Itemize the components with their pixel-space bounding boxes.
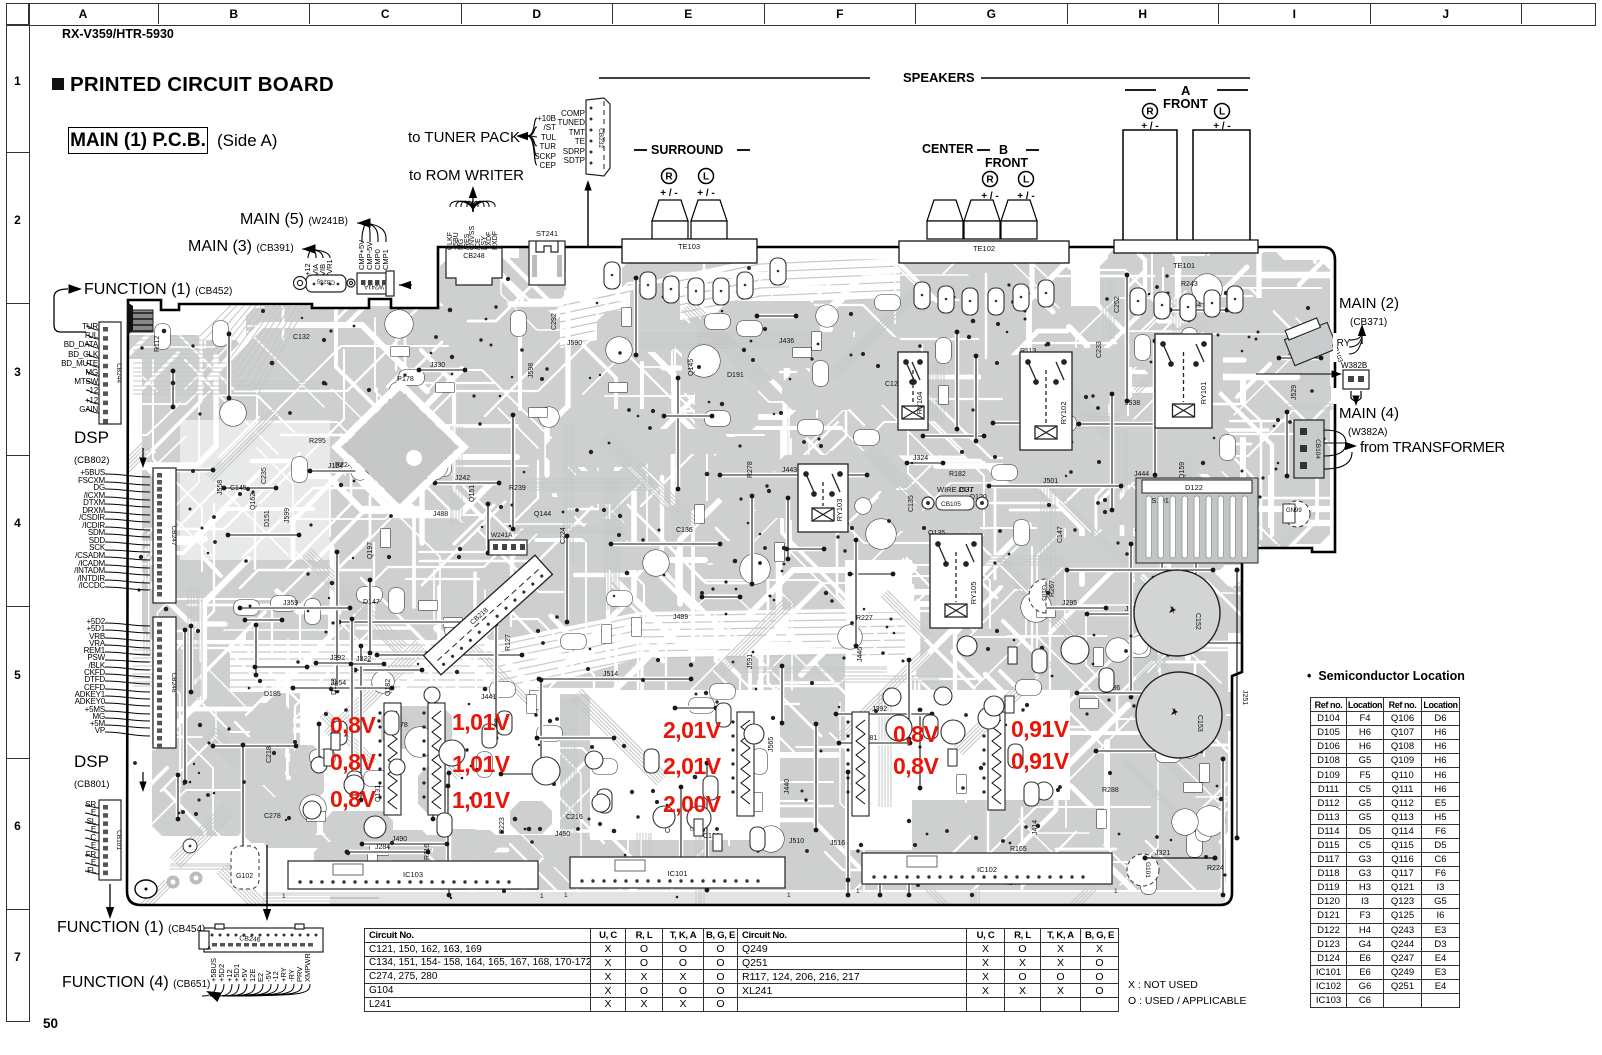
svg-text:G102: G102 [236,873,253,880]
svg-text:RY105: RY105 [969,582,978,605]
QFP IC (big diamond) [336,384,464,510]
svg-text:WIRE CUT: WIRE CUT [937,485,974,494]
dense pour overlay [771,305,820,342]
terraced white channel bands [180,252,1070,850]
svg-text:D191: D191 [727,372,744,379]
svg-text:J529: J529 [1291,385,1298,400]
connector CB246 [153,617,177,748]
svg-text:R223: R223 [499,817,506,834]
svg-text:R: R [986,174,994,185]
component clusters near measurement points [384,711,399,735]
connector CB247 [153,468,177,603]
wire J321 [1143,850,1218,861]
connector TE103 [622,239,757,263]
svg-text:J324: J324 [913,455,928,462]
svg-text:J443: J443 [782,467,797,474]
svg-text:R112: R112 [154,336,161,352]
connector W241A [357,271,394,296]
svg-text:TMT: TMT [569,128,586,137]
svg-text:J510: J510 [789,838,804,845]
relay RY103 [798,464,848,532]
W382B label [1341,361,1367,370]
connector CB104 [1294,420,1324,478]
A dashes [1125,89,1156,91]
svg-text:C278: C278 [264,813,281,820]
svg-text:C147: C147 [1057,526,1064,543]
MAIN (2) label [1339,295,1399,329]
svg-text:J501: J501 [1043,478,1058,485]
FUNCTION (1) CB452 arrow line [54,289,86,332]
connector CB244 [99,322,122,424]
svg-text:CMP1: CMP1 [381,249,390,270]
svg-text:L: L [703,171,709,182]
svg-text:W241A: W241A [491,532,513,539]
svg-text:D151: D151 [264,510,271,527]
connector W382B [1343,370,1369,389]
to TUNER PACK label [408,129,520,146]
svg-text:TE101: TE101 [1173,261,1195,270]
svg-text:J251: J251 [1241,690,1248,705]
capacitor C153 [1136,672,1222,758]
svg-text:TE102: TE102 [973,244,995,253]
svg-text:C132: C132 [293,334,310,341]
Semiconductor Location title [1307,669,1465,683]
svg-text:TE: TE [575,137,585,146]
svg-text:CB232: CB232 [597,128,604,148]
svg-text:J591: J591 [747,654,754,669]
from TRANSFORMER bracket [1324,430,1352,469]
svg-text:TUNED: TUNED [557,118,585,127]
svg-text:R: R [665,171,673,182]
relay RY101 [1155,334,1212,428]
MAIN (3) fan curves [302,244,316,253]
svg-text:J490: J490 [392,836,407,843]
svg-text:D122: D122 [1185,483,1203,492]
svg-text:RY104: RY104 [915,392,924,415]
svg-text:R267: R267 [1049,580,1056,597]
svg-text:CB105: CB105 [941,501,961,508]
left edge fan traces [133,268,326,686]
MAIN (1) P.C.B. box [68,127,208,154]
svg-text:RY101: RY101 [1199,382,1208,405]
svg-text:J321: J321 [1155,850,1170,857]
svg-text:R: R [1146,106,1154,117]
IC103 strip [282,861,544,900]
B label [999,143,1008,157]
svg-text:J295: J295 [1062,600,1077,607]
svg-text:XMPWR: XMPWR [303,953,312,982]
svg-text:J392: J392 [330,655,345,662]
svg-text:J538: J538 [1125,400,1140,407]
svg-text:C252: C252 [1114,296,1121,313]
connector CB101 [99,800,122,880]
svg-text:RY102: RY102 [1059,402,1068,425]
svg-text:J440: J440 [784,779,791,794]
svg-text:W241A: W241A [364,283,384,289]
IC102 strip [856,853,1118,895]
wire from CB232 to board [587,186,589,246]
svg-text:R288: R288 [1102,787,1119,794]
svg-text:J359: J359 [283,600,298,607]
FRONT label (B) [985,156,1028,170]
svg-text:L: L [1219,106,1225,117]
CB245/W241A pin labels [303,240,390,276]
legend [1128,979,1198,991]
svg-text:J590: J590 [567,340,582,347]
svg-text:J598: J598 [528,363,535,378]
connector TE101 base [1114,240,1258,253]
svg-text:GN99: GN99 [1286,508,1302,514]
FRONT label (A) [1163,96,1208,111]
FUNCTION (1) CB454 label [57,919,205,937]
Circuit No. table [364,928,1119,1012]
svg-text:R165: R165 [1010,846,1027,853]
svg-text:C224: C224 [560,527,567,544]
svg-text:J489: J489 [673,614,688,621]
connector ST241 [529,241,565,285]
svg-text:R116: R116 [424,844,431,860]
svg-text:J284: J284 [375,844,390,851]
svg-text:R127: R127 [505,634,512,651]
svg-text:D123: D123 [331,678,338,695]
svg-text:J330: J330 [430,362,445,369]
PRINTED CIRCUIT BOARD heading [52,78,64,90]
SURROUND terminals [652,200,688,239]
heatsink HS101 with D122 [1136,478,1258,563]
red voltage annotations [330,712,375,739]
FUNCTION (1) CB452 label [84,281,232,299]
svg-text:J436: J436 [779,338,794,345]
svg-text:R278: R278 [747,461,754,478]
connector CB232 to tuner pack [586,98,610,176]
svg-text:L: L [1023,174,1029,185]
MAIN (2) PRY curves [1361,328,1363,344]
diagonal connector CB218 [424,555,553,675]
svg-text:CB246: CB246 [239,935,261,943]
svg-text:IC101: IC101 [667,869,687,878]
from TRANSFORMER label [1360,439,1505,456]
row ruler [6,3,30,1022]
CENTER + B FRONT terminals [927,200,963,239]
svg-text:J414: J414 [1032,820,1039,835]
svg-text:CB104: CB104 [1314,439,1321,459]
svg-text:C218: C218 [266,746,273,763]
svg-text:ST241: ST241 [536,229,558,238]
svg-text:J444: J444 [1134,471,1149,478]
svg-text:C233: C233 [1096,341,1103,358]
svg-text:CB244: CB244 [115,363,122,383]
tiny reference labels [154,263,1298,887]
svg-text:+ / -: + / - [697,188,715,199]
FUNCTION (4) CB651 label [62,974,210,992]
svg-text:J599: J599 [284,508,291,523]
svg-text:TE103: TE103 [678,242,700,251]
small component outlines (capacitors / resistors) [155,274,1235,894]
svg-text:1: 1 [564,892,568,899]
connector CB103 (tilted) [1281,315,1343,379]
relay RY102 [1020,352,1072,450]
svg-text:Q182: Q182 [385,679,392,696]
svg-text:SDTP: SDTP [564,156,585,165]
bottom-left mount holes [135,880,157,898]
A FRONT terminal towers [1123,130,1250,241]
svg-text:C152: C152 [1194,613,1201,630]
svg-text:J450: J450 [555,831,570,838]
svg-text:SCKP: SCKP [534,152,556,161]
pin tick lines [85,326,150,874]
svg-text:J441: J441 [481,694,496,701]
ground pad G102 [231,846,259,889]
wire J251 near right edge [1235,568,1249,841]
connector CB245 [294,275,356,292]
CB246 pin labels [209,953,312,982]
svg-text:1: 1 [856,888,860,895]
relay RY105 [930,534,982,628]
svg-text:IC102: IC102 [977,865,997,874]
connector CB246 (FUNCTION) [199,924,323,952]
svg-text:J242: J242 [455,475,470,482]
svg-text:C135: C135 [908,495,915,512]
ground pad G103 [1029,579,1047,613]
svg-text:J488: J488 [433,511,448,518]
svg-text:RXDF: RXDF [492,231,499,250]
svg-text:TUR: TUR [540,142,557,151]
CENTER label [922,142,973,156]
svg-text:CB247: CB247 [170,526,177,546]
svg-text:1: 1 [540,893,544,900]
SURROUND label [651,143,723,157]
ground pad G104 [1283,501,1310,527]
svg-text:R243: R243 [1181,281,1198,288]
svg-text:CEP: CEP [540,161,556,170]
svg-text:G103: G103 [1040,585,1047,601]
svg-text:IC103: IC103 [403,870,423,879]
svg-text:J322: J322 [356,656,371,663]
IC101 strip [564,857,791,899]
resistor network arrays [378,703,401,815]
svg-text:Q162: Q162 [250,493,257,510]
DSP CB801 label [74,752,109,792]
svg-text:Q131: Q131 [375,785,382,802]
svg-text:C136: C136 [676,527,693,534]
svg-text:A: A [207,946,211,952]
svg-text:RY103: RY103 [835,499,844,522]
to ROM WRITER label [409,167,524,184]
svg-text:J558: J558 [217,480,224,495]
relay RY104 [898,352,928,430]
CENTER / B dashes [977,149,990,151]
svg-text:CB101: CB101 [115,830,122,850]
DSP CB802 label [74,428,109,468]
svg-text:C145: C145 [230,485,247,492]
svg-text:D147: D147 [363,599,380,606]
svg-text:J514: J514 [603,671,618,678]
svg-text:G101: G101 [1144,862,1151,878]
MAIN (4) label [1339,405,1399,439]
svg-text:D185: D185 [264,691,281,698]
column ruler [6,3,1596,26]
svg-text:C153: C153 [1196,715,1203,732]
MAIN (5) label [240,211,348,229]
connector W241A mid-board [489,532,527,555]
arrow from board to CB246 [266,845,268,916]
svg-text:R227: R227 [856,615,873,622]
MAIN (3) label [188,238,294,256]
svg-text:+ / -: + / - [660,188,678,199]
svg-text:Q151: Q151 [469,485,476,502]
Semiconductor Location table [1310,697,1460,1008]
svg-text:C216: C216 [566,814,583,821]
SPEAKERS header rule right [981,77,1250,79]
A label [1181,83,1190,98]
capacitor C152 [1134,570,1220,656]
connector TE102 [899,241,1069,263]
svg-text:CB246: CB246 [170,673,177,693]
svg-text:R239: R239 [509,485,526,492]
svg-text:/VR1: /VR1 [325,259,334,276]
svg-text:R295: R295 [309,438,326,445]
PRY label [1330,338,1350,349]
svg-text:Q144: Q144 [534,511,551,518]
svg-text:R224: R224 [1207,865,1224,872]
svg-text:1: 1 [282,893,286,900]
capacitor rows under speaker terminals [640,272,656,299]
via dots [133,256,1326,899]
svg-text:1: 1 [787,892,791,899]
model number heading [62,27,174,41]
page number [43,1016,58,1031]
PCB board outline MAIN(1) [127,247,1335,905]
speaker R/L circled letters [662,169,677,184]
WIRE CUT CB105 [922,485,988,510]
jumper wires J-links [169,273,1328,898]
svg-text:J516: J516 [830,840,845,847]
svg-text:Q159: Q159 [1179,462,1186,479]
connector CB248 [446,248,502,285]
svg-text:/ST: /ST [544,123,557,132]
svg-text:J446: J446 [857,647,864,662]
SPEAKERS heading [903,70,975,85]
svg-text:CB248: CB248 [463,253,485,260]
svg-text:Q197: Q197 [367,542,374,559]
MAIN (5) fan curves [357,218,371,227]
svg-text:TUL: TUL [541,133,557,142]
DSP down arrows [142,448,144,464]
right edge gaps [1333,333,1337,362]
SURROUND dashes [634,149,647,151]
SPEAKERS header rule left [599,77,870,79]
svg-text:R182: R182 [949,471,966,478]
svg-text:COMP: COMP [561,109,585,118]
svg-text:Q145: Q145 [688,359,695,376]
ground pad G101 [1127,854,1159,886]
to ROM WRITER arrow and pin labels [472,190,474,212]
svg-text:1: 1 [1114,888,1118,895]
svg-text:C235: C235 [261,467,268,484]
svg-text:+10B: +10B [537,114,556,123]
CB232 pin labels [534,109,585,170]
svg-text:C292: C292 [551,313,558,330]
arrow CB101 to FUNCTION(1)(CB454) [109,884,111,914]
svg-text:SDRP: SDRP [563,147,585,156]
svg-text:J565: J565 [768,737,775,752]
pin name clusters [0,322,98,414]
